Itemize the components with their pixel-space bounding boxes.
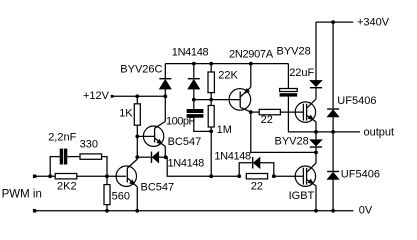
node IGBT emitter / 0V — [314, 209, 318, 213]
wire base node vertical (1K bottom - base - collector of lower BC547) — [136, 125, 138, 159]
svg-text:330: 330 — [80, 139, 98, 151]
node floating rail / D-1N4148 — [192, 62, 196, 66]
resistor 560 — [104, 176, 110, 211]
node input / RC branch — [48, 174, 52, 178]
node lower BC547 collector / diode — [135, 155, 139, 159]
label BYV28 (upper) — [277, 45, 311, 57]
wire 2K2 to base node — [77, 175, 107, 177]
svg-text:100pF: 100pF — [166, 116, 195, 128]
resistor 1K — [134, 104, 140, 125]
node drive node / 22K-1M — [209, 98, 213, 102]
wire IGBT emitter to 0V rail — [315, 186, 317, 211]
wire +340V rail — [316, 21, 353, 23]
node BC547 emitter / 0V rail — [135, 209, 139, 213]
label 22K — [218, 70, 238, 82]
svg-text:+340V: +340V — [357, 16, 390, 28]
wire base lead lower BC547 — [107, 175, 126, 177]
wire 0V rail — [35, 210, 354, 212]
svg-text:IGBT: IGBT — [289, 190, 315, 202]
wire to IGBT gate — [274, 175, 303, 177]
wire 100pF branch from node — [193, 100, 195, 110]
svg-text:2N2907A: 2N2907A — [229, 49, 274, 61]
label 22uF — [289, 67, 314, 79]
svg-text:BC547: BC547 — [141, 182, 175, 194]
label UF5406 (lower) — [341, 169, 380, 181]
node 560 bottom / 0V rail — [105, 209, 109, 213]
node UF5406 / 0V — [331, 209, 335, 213]
resistor 2K2 — [55, 174, 77, 179]
svg-text:22: 22 — [251, 180, 263, 192]
label 2N2907A — [229, 49, 274, 61]
wire 22 (upper) lead left — [251, 111, 259, 113]
resistor 1M — [208, 106, 214, 128]
label output — [364, 126, 395, 138]
diode 1N4148 (lower loop) — [252, 157, 260, 168]
wire output line — [316, 131, 360, 133]
wire 2N2907A emitter to floating rail — [250, 64, 252, 88]
label PWM in — [2, 189, 42, 201]
wire 1M branch — [210, 100, 212, 132]
wire 1N4148 mid diode leads — [137, 156, 165, 158]
diode BYV28 (lower) — [310, 132, 322, 153]
label BC547 (upper) — [168, 136, 202, 148]
svg-text:output: output — [364, 126, 395, 138]
svg-text:2,2nF: 2,2nF — [48, 131, 76, 143]
svg-text:22uF: 22uF — [289, 67, 314, 79]
wire upper IGBT emitter to output node — [315, 122, 317, 132]
wire UF5406 lower branch — [332, 132, 334, 211]
wire 22K branch — [210, 64, 212, 100]
label 22 (upper) — [261, 114, 273, 126]
wire RC branch up — [50, 157, 60, 177]
wire upper BC547 collector to +12V — [155, 96, 166, 128]
transistor upper IGBT — [295, 99, 316, 122]
node +12V / 1K — [135, 94, 139, 98]
node 2N2907A collector / 22 / lower loop — [249, 110, 253, 114]
svg-text:BYV26C: BYV26C — [120, 64, 162, 76]
label 2K2 — [57, 181, 77, 193]
terminal +12V — [111, 95, 114, 98]
wire BYV26C branch (+12V up to floating rail) — [164, 64, 166, 97]
transistor BC547 (lower) — [116, 166, 137, 187]
wire gate-drive rail to 1N4148/22 loop — [211, 175, 239, 177]
label IGBT — [289, 190, 315, 202]
wire 1N4148 lower loop — [239, 163, 274, 176]
svg-text:2K2: 2K2 — [57, 181, 77, 193]
label 100pF — [166, 116, 195, 128]
svg-text:UF5406: UF5406 — [341, 169, 380, 181]
label 1N4148 (mid) — [168, 158, 205, 170]
resistor 22K — [208, 72, 214, 93]
wire 22uF bottom to output node — [288, 97, 316, 132]
svg-text:0V: 0V — [359, 205, 373, 217]
svg-text:1K: 1K — [119, 108, 133, 120]
diode 1N4148 (to floating rail) — [188, 78, 200, 89]
svg-text:560: 560 — [112, 190, 130, 202]
label 1N4148 (top diode) — [172, 47, 209, 59]
wire lower BC547 collector diagonal — [127, 159, 137, 168]
wire IGBT collector — [315, 152, 317, 163]
wire floating supply rail — [165, 63, 288, 65]
capacitor 22uF top lead — [287, 64, 289, 89]
svg-text:+12V: +12V — [83, 90, 110, 102]
wire upper BC547 emitter down to diode node — [164, 147, 166, 158]
label 0V — [359, 205, 373, 217]
label 22 (lower) — [251, 180, 263, 192]
svg-text:BYV28: BYV28 — [275, 136, 309, 148]
svg-text:22: 22 — [261, 114, 273, 126]
node loop left — [237, 174, 241, 178]
transistor 2N2907A — [229, 87, 251, 112]
terminal PWM in (ground) — [33, 209, 36, 212]
node emitter junction / 1N4148 mid — [164, 155, 168, 159]
node floating rail / 2N2907A emitter — [249, 62, 253, 66]
diode BYV26C — [159, 78, 171, 89]
transistor IGBT (lower) — [295, 163, 316, 186]
node loop right — [272, 174, 276, 178]
label +340V — [357, 16, 390, 28]
label 2,2nF — [48, 131, 76, 143]
wire 1M bottom down to gate-drive rail — [210, 131, 212, 176]
diode UF5406 (upper) — [327, 108, 339, 117]
capacitor 2,2nF — [60, 149, 68, 165]
node floating rail / 22K — [209, 62, 213, 66]
capacitor 100pF — [187, 109, 204, 118]
label BYV28 (lower) — [275, 136, 309, 148]
svg-text:BC547: BC547 — [168, 136, 202, 148]
node output / UF5406 — [331, 130, 335, 134]
node gate-drive rail / 1M — [209, 174, 213, 178]
label 560 — [112, 190, 130, 202]
label 1M — [217, 124, 232, 136]
svg-text:22K: 22K — [218, 70, 238, 82]
wire BC547 emitter to 0V rail — [136, 187, 138, 211]
wire +340V down to BYV28 anode (right column) — [315, 22, 317, 81]
diode UF5406 (lower) — [327, 171, 339, 180]
node +12V / BYV26C / BC547 collector — [163, 94, 167, 98]
diode BYV28 (upper) — [310, 80, 322, 88]
wire +12V rail — [113, 95, 166, 97]
wire 1N4148 top diode branch — [193, 64, 195, 100]
wire 2N2907A collector down to lower BYV28 node — [251, 112, 316, 152]
wire 330 to base node — [102, 157, 107, 177]
node drive node / diode — [192, 98, 196, 102]
label 330 — [80, 139, 98, 151]
svg-text:1M: 1M — [217, 124, 232, 136]
svg-text:PWM in: PWM in — [2, 189, 42, 201]
svg-text:BYV28: BYV28 — [277, 45, 311, 57]
label UF5406 (upper) — [337, 95, 376, 107]
node lower BYV28 / IGBT collector — [314, 151, 318, 155]
node 1M bottom / 100pF — [209, 130, 213, 134]
resistor 22 (lower) — [246, 174, 267, 179]
wire 2N2907A collector junction — [250, 111, 252, 113]
label 1N4148 (lower loop) — [214, 151, 251, 163]
node output / emitter / BYV28 — [314, 130, 318, 134]
svg-text:1N4148: 1N4148 — [172, 47, 209, 59]
label +12V — [83, 90, 110, 102]
transistor BC547 (upper) — [143, 126, 165, 147]
wire 100pF bottom to 1M bottom — [194, 118, 211, 132]
terminal PWM in (signal) — [33, 175, 36, 178]
resistor 22 (upper) — [259, 109, 280, 114]
label BYV26C — [120, 64, 162, 76]
wire BYV28 cathode to upper IGBT collector — [315, 88, 317, 99]
wire 1K branch — [136, 96, 138, 104]
wire node line (1N4148/22K to 2N2907A base) — [194, 99, 240, 101]
wire cap to 330 — [67, 156, 80, 158]
svg-text:UF5406: UF5406 — [337, 95, 376, 107]
wire 22 (upper) to upper IGBT gate — [280, 111, 303, 113]
svg-text:1N4148: 1N4148 — [214, 151, 251, 163]
node +340V junction — [331, 20, 335, 24]
capacitor 22uF — [280, 89, 298, 97]
node base node junction — [105, 174, 109, 178]
svg-text:1N4148: 1N4148 — [168, 158, 205, 170]
label 1K — [119, 108, 133, 120]
wire base lead upper BC547 — [137, 135, 154, 137]
diode 1N4148 (discharge, mid) — [151, 152, 159, 163]
wire PWM input line — [35, 175, 56, 177]
node base of upper BC547 — [135, 135, 139, 139]
resistor 330 — [80, 154, 102, 159]
wire UF5406 upper branch — [332, 22, 334, 132]
label BC547 (lower) — [141, 182, 175, 194]
wire emitter node down to gate-drive rail — [166, 157, 212, 176]
